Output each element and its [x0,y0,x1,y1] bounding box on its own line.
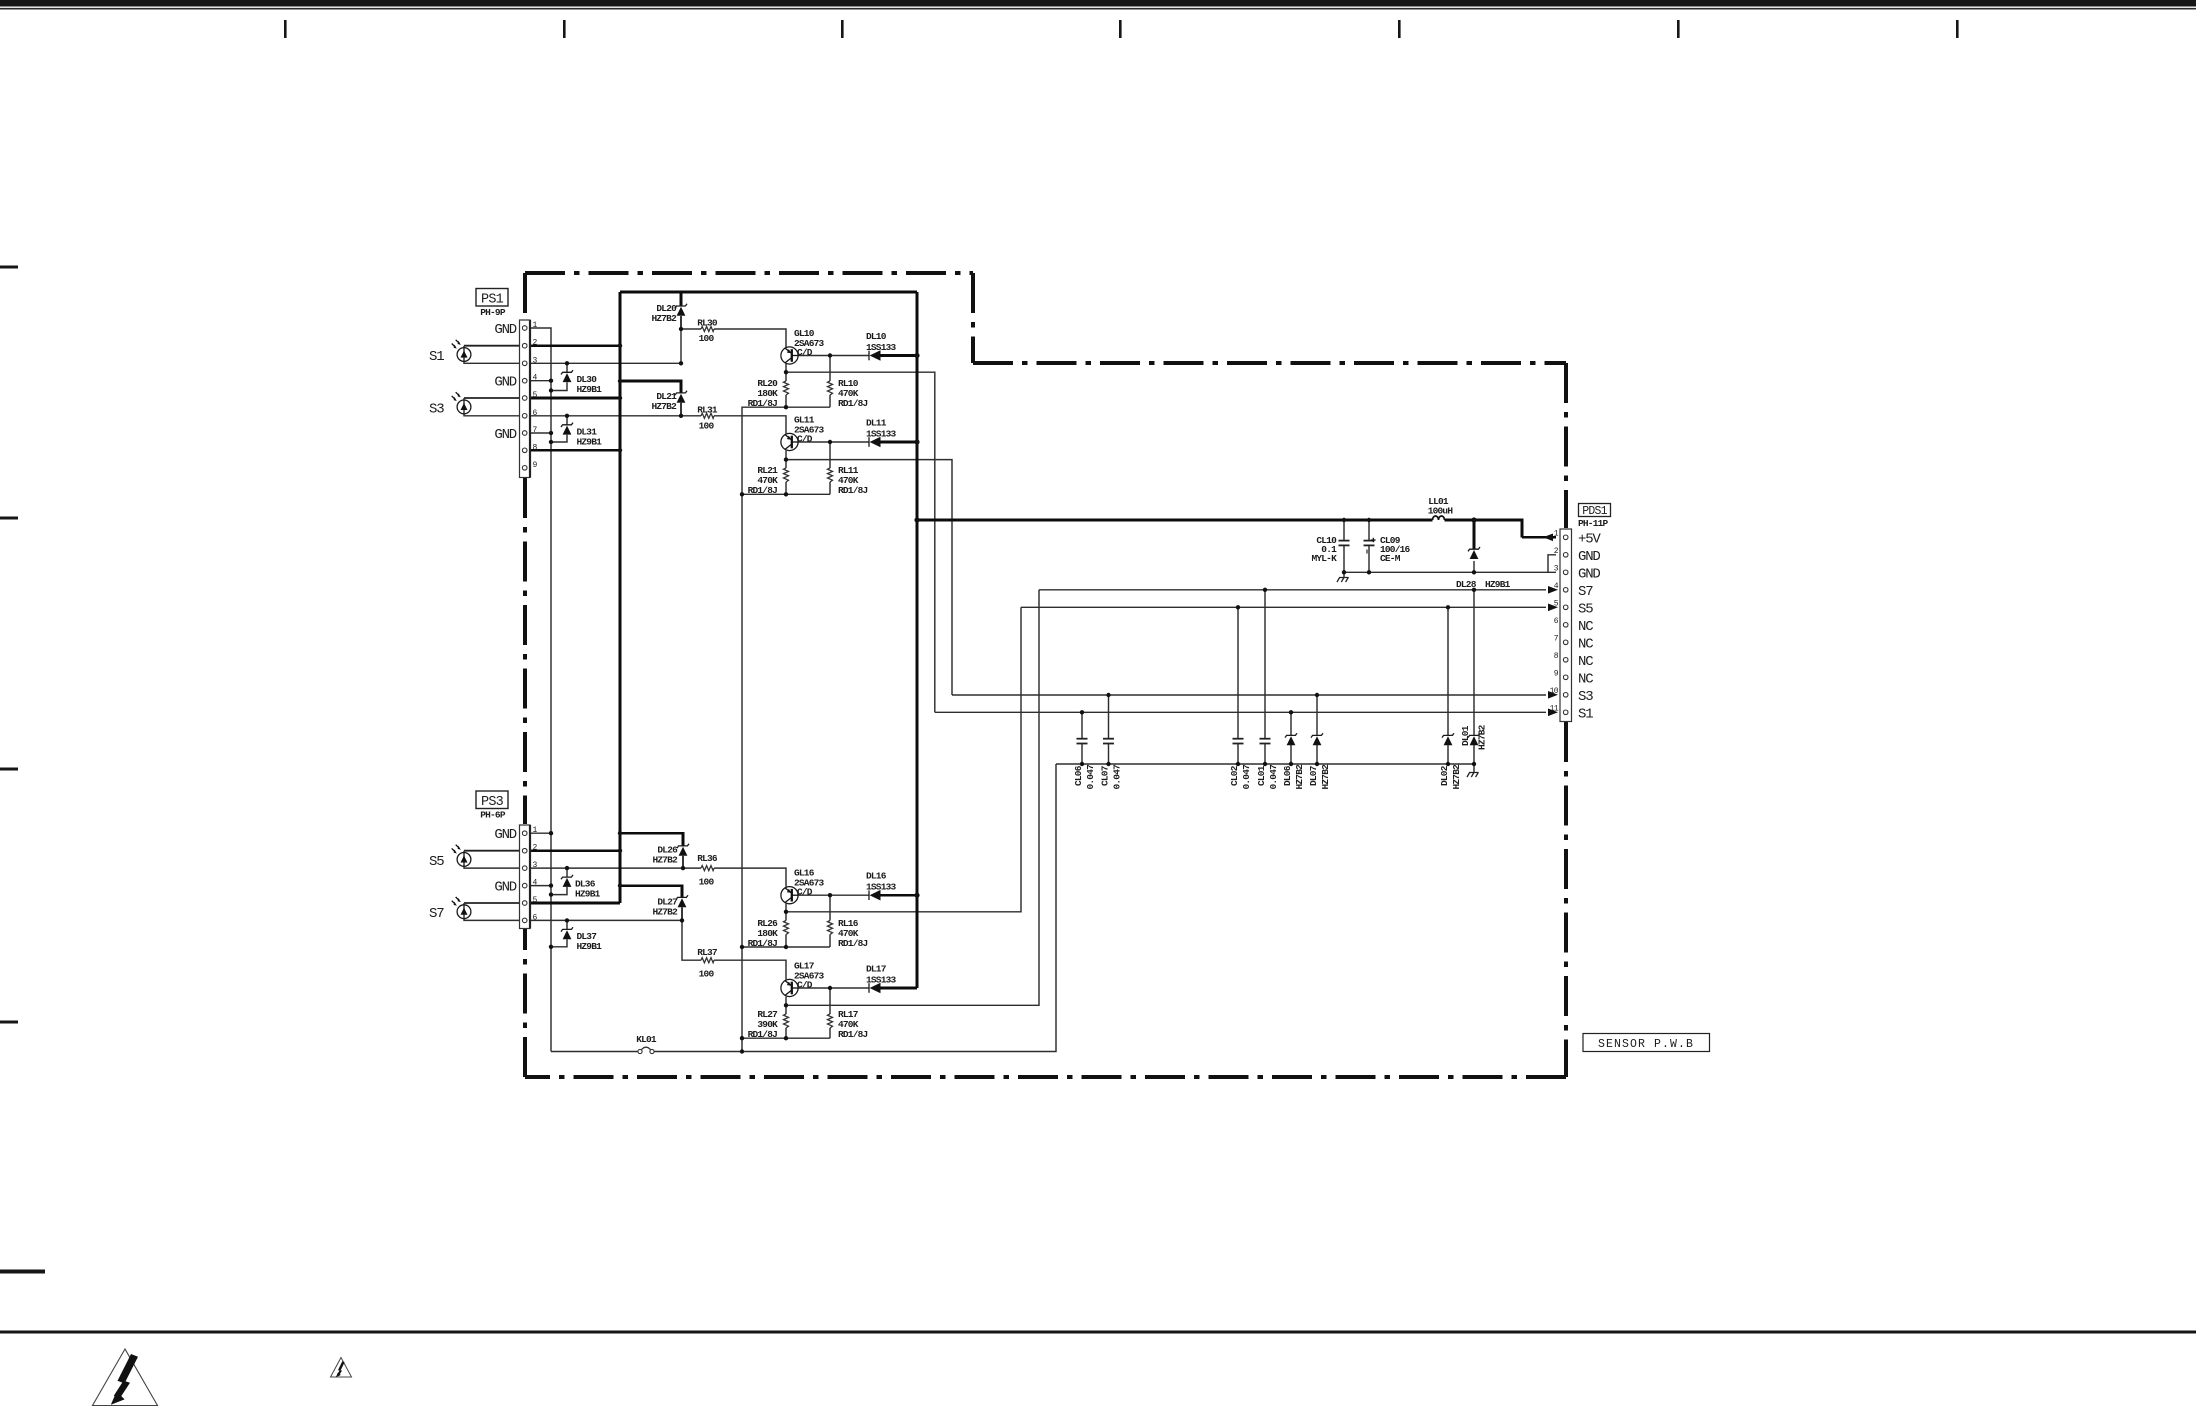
label box SENSOR P.W.B [1583,1034,1710,1052]
svg-text:RD1/8J: RD1/8J [838,485,868,496]
thick DL28 anode stub [1473,520,1476,549]
junction dots on clamp diode branches x681 [679,327,685,923]
page bottom rule [0,1331,2196,1334]
transistor GL10 [781,328,825,364]
wire GL11 emitter S3 output row [786,451,1546,695]
resistor RL31 [697,404,718,431]
svg-text:S7: S7 [1578,584,1593,600]
svg-text:HZ7B2: HZ7B2 [651,401,677,412]
svg-text:HZ9B1: HZ9B1 [577,384,603,395]
svg-text:RD1/8J: RD1/8J [748,1029,778,1040]
svg-text:DL06: DL06 [1282,765,1293,786]
svg-text:DL11: DL11 [866,418,887,429]
transistor GL16 [781,868,825,904]
diode DL17 [866,964,897,994]
svg-text:100uH: 100uH [1428,506,1454,517]
svg-text:HZ7B2: HZ7B2 [651,313,677,324]
thick DL20 branch from top bus [680,292,683,306]
inductor LL01 [1428,496,1454,520]
junction dots on GND line x551 [549,379,553,950]
svg-text:1SS133: 1SS133 [866,882,897,893]
diode DL16 [866,871,897,901]
junction dots on capacitor ground bus [1080,762,1476,766]
svg-text:GND: GND [494,427,516,443]
resistor RL30 [697,318,718,345]
svg-text:100: 100 [699,877,715,888]
svg-text:S3: S3 [429,401,444,417]
svg-text:CL02: CL02 [1229,765,1240,786]
svg-text:HZ9B1: HZ9B1 [1485,579,1511,590]
border left edge segments [523,929,527,1077]
signal arrow into PDS1 pin1 [1543,534,1553,542]
svg-text:0.047: 0.047 [1268,764,1279,790]
border bottom edge [525,1075,1566,1079]
ground symbol at DL01 [1467,773,1479,778]
svg-text:GND: GND [1578,549,1600,565]
zener diode DL01 [1460,724,1488,750]
PDS1 signal labels [1578,531,1601,722]
wire RL16 leg [829,895,831,947]
capacitor CL07 [1100,739,1123,790]
svg-text:HZ7B2: HZ7B2 [1451,764,1462,790]
wire bias node vertical x742 [741,494,743,1051]
photo sensor S7 [429,897,471,922]
wire PS3 pin6 S7 row [528,919,682,921]
wire GL17 collector row [798,987,869,989]
svg-text:0.047: 0.047 [1085,764,1096,790]
PDS1 pin circles and numbers [1550,529,1568,714]
wire RL27 leg [785,1005,787,1038]
junction dots near PDS1 filter [1080,517,1477,714]
wire DL36 branch [551,868,567,895]
thick PS1 pin8 row [529,449,620,452]
wire PDS1 pin2 jog [1548,555,1556,573]
resistor RL36 [697,853,718,888]
photo sensor S5 [429,845,471,870]
svg-text:DL16: DL16 [866,871,887,882]
wire sensor S1 stub [464,345,520,347]
thick DL27 branch [620,886,682,898]
wire sensor S5 stub [464,850,520,852]
svg-text:SENSOR P.W.B: SENSOR P.W.B [1598,1038,1694,1051]
wire sensor S7 stub [464,902,520,904]
zener diode DL28 [1456,547,1511,590]
wire GND net from PS1 pin1 down left side [528,328,551,1052]
svg-text:CL01: CL01 [1256,765,1267,786]
warning triangle small [331,1358,352,1378]
thick DL21 branch [620,381,681,393]
signal arrow into PDS1 pin10 [1548,691,1558,699]
svg-text:DL02: DL02 [1439,765,1450,786]
wire GL16 collector row [798,894,869,896]
wire DL01 leg and ground [1473,590,1475,773]
wire GND row to PDS1 pin3 [1344,571,1556,573]
wire KL01 ground row [551,1051,638,1053]
thick GND bus vertical x620 [619,292,622,903]
capacitor CL01 [1256,739,1279,790]
diode DL11 [866,418,897,448]
border right edge upper [1564,363,1568,528]
resistor RL11 [828,465,868,496]
wire capacitor ground bus row [1056,763,1474,765]
thick +5V feed row to PDS1 pin1 [917,520,1556,537]
wire PS1 pin6 S3 row to RL31 [528,416,786,434]
ground symbol at CL10 [1337,578,1349,583]
wire CL06 leg [1081,712,1083,764]
resistor RL27 [748,1009,789,1040]
wire PS1 pin4 GND stub [528,380,551,382]
svg-text:RD1/8J: RD1/8J [838,398,868,409]
svg-text:0.047: 0.047 [1112,764,1123,790]
signal arrow into PDS1 pin5 [1548,604,1558,612]
wire RL10 leg [829,356,831,408]
svg-text:1SS133: 1SS133 [866,975,897,986]
page tick marks left [0,266,45,1274]
thick PS3 pin5 row [529,902,620,905]
wire RL27/RL17 foot row [742,1037,830,1039]
svg-text:HZ7B2: HZ7B2 [652,855,678,866]
svg-text:S5: S5 [1578,601,1593,617]
svg-text:HZ9B1: HZ9B1 [575,889,601,900]
capacitor CL10 [1311,535,1349,564]
svg-text:HZ7B2: HZ7B2 [1294,764,1305,790]
svg-text:GND: GND [494,827,516,843]
wire DL02 leg [1447,607,1449,764]
wire CL10 legs [1343,520,1345,578]
junction dots on GND bus x620 [618,344,622,888]
svg-text:C/D: C/D [797,434,813,445]
svg-text:S1: S1 [1578,706,1593,722]
wire PS3 pin4 GND stub [528,885,551,887]
signal arrow into PDS1 pin4 [1548,586,1558,594]
svg-text:RD1/8J: RD1/8J [748,398,778,409]
svg-text:CL07: CL07 [1100,765,1111,786]
connector PS1 [476,289,530,478]
wire PS1 pin7 GND stub [528,432,551,434]
svg-text:RD1/8J: RD1/8J [748,485,778,496]
svg-text:PS1: PS1 [481,293,504,308]
svg-text:C/D: C/D [797,980,813,991]
wire CL07 leg [1108,695,1110,764]
capacitor CL02 [1229,739,1252,790]
svg-text:1SS133: 1SS133 [866,342,897,353]
connector PDS1 [1560,504,1611,722]
svg-text:100: 100 [699,420,715,431]
transistor GL11 [781,415,825,451]
svg-text:RL36: RL36 [697,853,718,864]
resistor RL16 [828,918,868,949]
zener diode DL37 [561,927,602,952]
svg-text:RD1/8J: RD1/8J [838,1029,868,1040]
svg-text:DL10: DL10 [866,331,887,342]
PS1 GND labels [494,322,516,443]
zener diode DL06 [1282,733,1305,789]
PS3 GND labels [494,827,516,895]
thick DL11 cathode stub [881,441,918,444]
svg-text:HZ9B1: HZ9B1 [577,437,603,448]
PS3 pin circles and numbers [522,826,537,923]
svg-text:100: 100 [699,969,715,980]
page tick marks top [284,20,1959,38]
wire GL10 collector row [798,355,869,357]
wire DL28 tail [1473,561,1475,572]
wire DL37 branch [551,920,567,946]
wire RL11 leg [829,442,831,494]
svg-text:NC: NC [1578,619,1593,635]
svg-text:RD1/8J: RD1/8J [838,938,868,949]
PWB dash-dot border top-left segment [525,271,973,275]
jumper KL01 [636,1034,657,1054]
thick DL10 cathode stub [881,354,918,357]
thick PS1 pin2 row [529,344,620,347]
resistor RL10 [828,378,868,409]
svg-text:GND: GND [494,322,516,338]
wire DL31 branch [551,416,567,442]
svg-text:+5V: +5V [1578,531,1601,547]
wire CL01 leg [1264,590,1266,764]
wire PS3 pin3 S5 row to RL36 [528,868,786,887]
wire RL21 leg [785,460,787,495]
svg-text:RL31: RL31 [697,404,718,415]
thick GND bus top rail [620,291,917,294]
svg-text:RL37: RL37 [697,947,718,958]
svg-text:DL01: DL01 [1460,725,1471,746]
wire PS3 pin1 GND stub [528,832,551,834]
wire RL17 leg [829,988,831,1038]
svg-text:HZ7B2: HZ7B2 [1477,724,1488,750]
svg-text:PH-9P: PH-9P [480,307,506,318]
svg-text:S5: S5 [429,854,444,870]
thick PS1 pin5 row [529,397,620,400]
svg-text:CE-M: CE-M [1380,553,1401,564]
svg-text:NC: NC [1578,654,1593,670]
svg-text:NC: NC [1578,671,1593,687]
wire GL17 emitter S7 output row [786,590,1546,1006]
wire DL07 leg [1316,695,1318,764]
photo sensor S1 [429,340,471,365]
wire CL09 legs [1368,520,1370,572]
warning triangle large [93,1349,158,1406]
wire GL16 emitter S5 output row [786,607,1546,912]
svg-text:GND: GND [494,879,516,895]
resistor RL21 [748,465,789,496]
signal arrow into PDS1 pin11 [1548,709,1558,717]
svg-text:HZ9B1: HZ9B1 [577,941,603,952]
page top bar [0,0,2196,7]
zener diode DL26 [652,844,689,866]
wire CL02 leg [1237,607,1239,764]
svg-text:RD1/8J: RD1/8J [748,938,778,949]
svg-text:KL01: KL01 [636,1034,657,1045]
border top-right segment [973,361,1566,365]
wire DL30 branch [551,363,567,390]
wire PS1 pin3 S1 row [528,362,681,364]
resistor RL17 [828,1009,868,1040]
connector PS3 [476,791,530,929]
thick +5V rail x917 [916,292,919,988]
thick PS3 pin2 row [529,849,620,852]
svg-text:GND: GND [494,375,516,391]
junction dots on sensor zener stubs x567 [565,361,569,923]
diode DL10 [866,331,897,361]
capacitor CL06 [1073,739,1096,790]
wire sensor S3 stub [464,397,520,399]
zener diode DL02 [1439,733,1462,789]
svg-text:PDS1: PDS1 [1582,505,1607,518]
svg-text:0.047: 0.047 [1241,764,1252,790]
svg-text:HZ7B2: HZ7B2 [1320,764,1331,790]
thick DL17 cathode stub [881,987,918,990]
wire RL20/RL10 foot row [742,407,830,494]
wire RL21/RL11 foot row [742,493,830,495]
wire GL10 emitter S1 output row [786,364,1546,712]
zener diode DL36 [561,875,601,900]
junction dots at transistor emitter and bias nodes [740,353,832,1053]
svg-text:RL30: RL30 [697,318,718,329]
transistor GL17 [781,961,825,997]
svg-text:NC: NC [1578,636,1593,652]
svg-text:S1: S1 [429,349,444,365]
wire RL26 leg [785,912,787,947]
svg-text:C/D: C/D [797,347,813,358]
svg-text:GND: GND [1578,566,1600,582]
wire S7 jog down to RL37 row [682,920,786,979]
thick DL26 branch [620,833,683,846]
svg-text:PS3: PS3 [481,795,504,810]
resistor RL37 [697,947,718,980]
svg-text:PH-6P: PH-6P [480,810,506,821]
zener diode DL21 [651,391,687,412]
svg-text:PH-11P: PH-11P [1578,518,1609,529]
resistor RL20 [748,378,789,409]
svg-text:CL06: CL06 [1073,765,1084,786]
border step vertical [971,273,975,363]
wire GL11 collector row [798,441,869,443]
junction dots on +5V rail x917 [914,353,919,898]
capacitor CL09 electrolytic [1364,535,1411,564]
wire DL20 tail to S1 row [680,329,682,363]
svg-text:HZ7B2: HZ7B2 [652,907,678,918]
svg-text:100: 100 [699,333,715,344]
border right edge lower [1564,722,1568,1077]
zener diode DL07 [1308,733,1331,789]
photo sensor S3 [429,392,471,417]
svg-text:C/D: C/D [797,887,813,898]
wire DL06 leg [1290,712,1292,764]
wire RL26/RL16 foot row [742,946,830,948]
svg-text:MYL-K: MYL-K [1311,553,1337,564]
svg-text:S3: S3 [1578,689,1593,705]
wire RL20 leg [785,372,787,407]
PS1 pin circles and numbers [522,321,537,470]
svg-text:DL07: DL07 [1308,765,1319,786]
svg-text:1SS133: 1SS133 [866,429,897,440]
zener diode DL20 [651,303,687,324]
resistor RL26 [748,918,789,949]
zener diode DL31 [561,423,602,448]
svg-text:S7: S7 [429,906,444,922]
wire RL30 row from DL20 node [681,329,786,347]
thick DL16 cathode stub [881,894,918,897]
zener diode DL30 [561,370,602,395]
zener diode DL27 [652,895,688,917]
svg-text:DL17: DL17 [866,964,887,975]
